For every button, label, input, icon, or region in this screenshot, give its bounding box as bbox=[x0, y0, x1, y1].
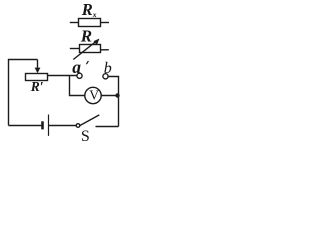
rheostat R bbox=[70, 45, 109, 53]
potentiometer R' bbox=[26, 74, 48, 81]
svg-text:R: R bbox=[81, 0, 93, 19]
svg-text:a: a bbox=[72, 57, 81, 77]
wire switch to right corner bbox=[96, 126, 119, 128]
label b bbox=[104, 60, 112, 77]
label R' bbox=[30, 79, 44, 94]
wire voltmeter to right rail bbox=[101, 95, 118, 97]
tick mark bbox=[86, 61, 88, 64]
label V bbox=[89, 88, 99, 103]
battery negative plate bbox=[41, 121, 44, 129]
wire voltmeter branch bbox=[70, 76, 85, 96]
switch S blade bbox=[79, 115, 99, 126]
label S bbox=[81, 128, 90, 145]
battery positive plate bbox=[48, 115, 50, 136]
wire battery to switch bbox=[49, 125, 77, 127]
svg-text:x: x bbox=[92, 10, 97, 19]
wiper arrow bbox=[35, 60, 41, 74]
svg-text:b: b bbox=[104, 60, 112, 77]
svg-text:R: R bbox=[80, 27, 92, 46]
wire bottom left bbox=[9, 125, 43, 127]
svg-text:S: S bbox=[81, 128, 90, 145]
svg-text:V: V bbox=[89, 88, 99, 103]
voltmeter U1 bbox=[85, 87, 101, 103]
wire R' to terminal a bbox=[48, 75, 78, 77]
resistor Rx bbox=[70, 19, 109, 27]
label R bbox=[80, 27, 92, 46]
wire b to right rail bbox=[108, 77, 118, 127]
terminal b bbox=[103, 74, 108, 79]
label Rx bbox=[81, 0, 97, 19]
junction dot bbox=[115, 93, 119, 97]
label a bbox=[72, 57, 81, 77]
rheostat R arrow bbox=[73, 39, 99, 60]
svg-text:R′: R′ bbox=[30, 79, 44, 94]
switch S pivot bbox=[76, 124, 80, 128]
terminal a bbox=[77, 73, 82, 78]
wire left rail bbox=[9, 60, 38, 126]
